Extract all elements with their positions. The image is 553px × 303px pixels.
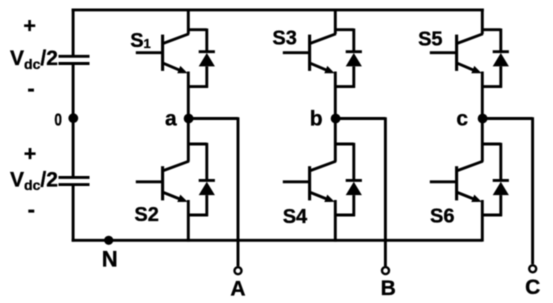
diode D1l (anti-parallel, lower leg 1): [188, 143, 215, 216]
svg-text:A: A: [230, 277, 245, 300]
wire: left rail lower segment (C2 to - bus): [72, 185, 75, 242]
transistor S5 (IGBT upper, leg 3): [430, 34, 483, 74]
diode D3l (anti-parallel, lower leg 3): [482, 143, 509, 216]
wire: output B drop (vertical): [384, 117, 387, 266]
wire: leg 2 bottom (emitter to bottom rail): [334, 200, 337, 242]
diode D2l (anti-parallel, lower leg 2): [335, 143, 362, 216]
svg-text:+: +: [23, 13, 36, 37]
terminal C (open circle): [529, 265, 536, 272]
wire: output A drop (vertical): [237, 117, 240, 266]
diode D1u (anti-parallel, upper leg 1): [188, 29, 215, 88]
svg-text:0: 0: [54, 111, 62, 130]
wire: leg 2 top (rail to switch S3): [334, 9, 337, 35]
wire: leg 3 midpoint (emitter junction to node c): [481, 72, 484, 119]
transistor S3 (IGBT upper, leg 2): [283, 34, 336, 74]
svg-text:S4: S4: [283, 206, 308, 228]
node N junction dot: [104, 236, 113, 245]
wire: leg 1 (node a to switch S2): [187, 119, 190, 162]
wire: leg 3 top (rail to switch S5): [481, 9, 484, 35]
transistor S2 (IGBT lower, leg 1): [136, 161, 189, 202]
node 0 junction dot: [68, 113, 78, 123]
node c junction dot: [478, 114, 488, 124]
svg-text:S6: S6: [430, 206, 454, 228]
svg-text:-: -: [28, 197, 35, 222]
wire: leg 1 bottom (emitter to bottom rail): [187, 200, 190, 242]
node a junction dot: [184, 114, 194, 124]
capacitor C1 (Vdc/2 upper): [59, 56, 90, 63]
wire: node b to output B (horizontal): [335, 117, 385, 120]
svg-text:+: +: [24, 142, 37, 166]
wire: output C drop (vertical): [531, 117, 534, 264]
wire: node c to output C (horizontal): [482, 117, 532, 120]
svg-text:-: -: [27, 76, 34, 101]
svg-text:c: c: [456, 107, 468, 130]
transistor S6 (IGBT lower, leg 3): [430, 161, 483, 202]
wire: node a to output A (horizontal): [188, 117, 238, 120]
wire: left rail between C1 and C2: [72, 64, 75, 178]
wire: bottom DC bus rail: [72, 239, 483, 242]
svg-text:S5: S5: [418, 28, 442, 50]
wire: leg 2 midpoint (emitter junction to node b): [334, 72, 337, 119]
diode D2u (anti-parallel, upper leg 2): [335, 29, 362, 88]
transistor S1 (IGBT upper, leg 1): [136, 34, 189, 74]
svg-text:S2: S2: [134, 204, 158, 226]
diode D3u (anti-parallel, upper leg 3): [482, 29, 509, 88]
svg-text:B: B: [381, 277, 396, 300]
wire: leg 1 top (rail to switch S1): [187, 9, 190, 35]
wire: leg 1 midpoint (emitter junction to node a): [187, 72, 190, 119]
transistor S4 (IGBT lower, leg 2): [283, 161, 336, 202]
wire: left DC rail upper segment (+ bus to capacitor C1): [72, 9, 75, 57]
wire: leg 2 (node b to switch S4): [334, 119, 337, 162]
svg-text:b: b: [310, 107, 323, 130]
svg-text:S3: S3: [272, 28, 296, 50]
svg-text:N: N: [102, 247, 118, 272]
terminal A (open circle): [235, 267, 242, 274]
wire: top DC bus rail: [72, 8, 484, 11]
terminal B (open circle): [382, 267, 389, 274]
node b junction dot: [331, 114, 341, 124]
capacitor C2 (Vdc/2 lower): [59, 177, 90, 184]
wire: leg 3 (node c to switch S6): [481, 119, 484, 162]
wire: leg 3 bottom (emitter to bottom rail): [481, 200, 484, 242]
svg-text:C: C: [525, 276, 540, 299]
svg-text:a: a: [165, 107, 177, 130]
